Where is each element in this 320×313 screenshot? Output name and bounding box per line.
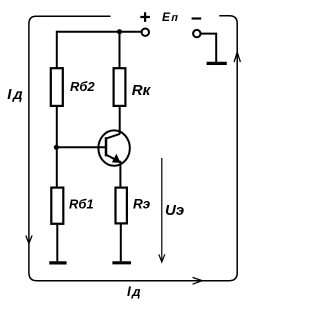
arrowhead: Uэ arrow tip	[159, 254, 165, 262]
transistor VT: emitter arrowhead	[112, 154, 121, 163]
wire: collector branch top (top rail to Rк)	[119, 32, 121, 68]
arrow: Uэ voltage arrow pointing down	[161, 158, 163, 261]
ground: bar under Rб1	[49, 261, 66, 264]
wire: left branch top (top rail to Rб2)	[56, 31, 58, 68]
svg-text:д: д	[12, 87, 26, 103]
svg-text:Uэ: Uэ	[165, 202, 184, 219]
node: base junction	[54, 145, 59, 150]
svg-text:д: д	[131, 284, 143, 299]
arrowhead: loop right side, pointing up	[234, 52, 240, 62]
resistor Rк	[114, 68, 126, 106]
node: top junction (collector branch)	[117, 29, 122, 34]
svg-text:Rэ: Rэ	[133, 197, 151, 212]
wire: base wire from divider node	[56, 146, 106, 148]
svg-text:Rб1: Rб1	[69, 196, 94, 211]
label +	[140, 12, 150, 22]
wire: outer current loop Iд (left, bottom, right sides with rounded corners)	[29, 16, 237, 281]
wire: top rail from left branch to + terminal	[57, 31, 141, 33]
wire: Rк to collector	[119, 106, 121, 134]
wire: emitter to Rэ	[119, 161, 121, 188]
resistor Rб2	[51, 68, 63, 106]
arrowhead: loop left side, pointing down	[26, 236, 32, 244]
wire: Rб1 to ground	[56, 224, 58, 261]
terminal +: open circle	[142, 29, 149, 36]
svg-text:I: I	[127, 284, 131, 299]
transistor VT: emitter stroke	[106, 155, 120, 162]
svg-text:п: п	[170, 12, 179, 24]
transistor VT (NPN): body circle	[98, 130, 129, 165]
terminal −: open circle	[193, 30, 200, 37]
svg-text:Rб2: Rб2	[70, 79, 95, 94]
wire: left branch middle (Rб2 to Rб1 through base node)	[56, 106, 58, 188]
ground: bar at − terminal	[207, 62, 227, 65]
svg-text:Rк: Rк	[132, 82, 152, 99]
ground: bar under Rэ	[112, 261, 131, 264]
label −	[192, 17, 202, 19]
resistor Rб1	[51, 188, 63, 224]
arrowhead: loop bottom, pointing right	[193, 277, 203, 284]
resistor Rэ	[116, 188, 127, 224]
transistor VT: base bar	[105, 137, 108, 156]
transistor VT: collector stroke	[106, 134, 120, 139]
wire: from − terminal to ground	[201, 34, 217, 62]
wire: Rэ to ground	[120, 223, 122, 261]
